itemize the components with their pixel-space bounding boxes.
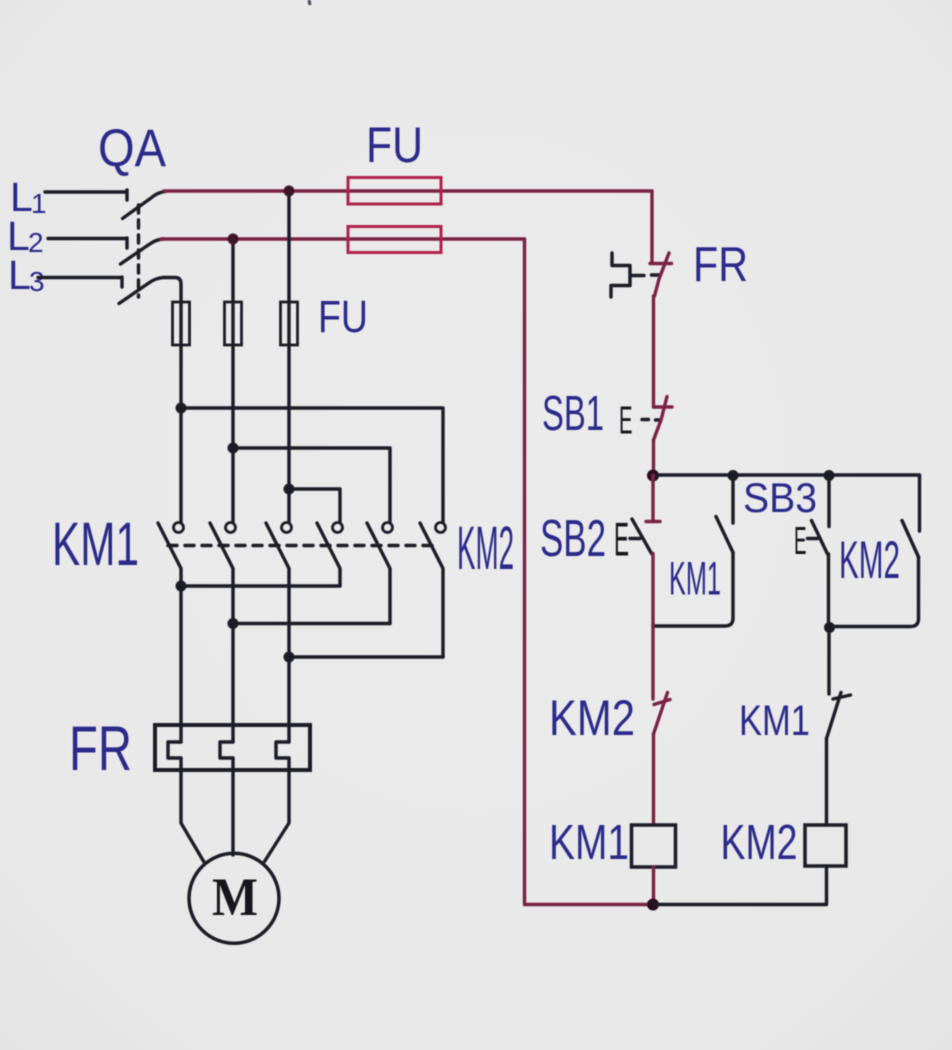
node L2 tap — [228, 234, 239, 245]
wire L1 lead-in — [45, 190, 127, 200]
svg-text:SB3: SB3 — [743, 474, 817, 521]
wire motor lead 2 — [231, 758, 234, 855]
wire SB1 to node A — [652, 440, 655, 476]
contact KM2 pole2 — [367, 523, 393, 624]
fuse FU control line 2 — [348, 227, 441, 253]
terminal L1 — [10, 174, 47, 220]
contact linkage dashed — [168, 544, 436, 547]
svg-text:E: E — [614, 513, 629, 566]
svg-text:KM1: KM1 — [549, 816, 629, 870]
wire phase2 to FR — [231, 624, 234, 743]
switch QA pole 1 blade — [123, 191, 167, 218]
wire L2 lead-in — [48, 238, 127, 248]
terminal L2 — [7, 213, 44, 259]
svg-text:KM2: KM2 — [839, 531, 900, 590]
wire motor lead 1 — [181, 758, 204, 862]
relay FR heater element 2 — [220, 742, 233, 758]
svg-text:FR: FR — [693, 238, 748, 292]
wire bus3 — [289, 655, 443, 658]
svg-text:M: M — [212, 867, 258, 927]
svg-text:E: E — [619, 400, 633, 443]
node phase1 feed — [176, 403, 187, 414]
svg-text:KM1: KM1 — [52, 510, 139, 578]
node C — [824, 470, 835, 481]
svg-text:KM1: KM1 — [669, 552, 721, 605]
wire L2 phase red run — [161, 237, 525, 240]
contact KM1 pole3 — [266, 523, 292, 658]
wire to KM1 coil — [652, 734, 655, 825]
contact KM1 interlock NC — [827, 628, 851, 739]
switch QA pole 2 blade — [121, 239, 164, 264]
contact KM2 pole1 — [317, 523, 343, 587]
wire SB2 down — [651, 554, 654, 627]
wire phase 3 drop — [287, 191, 290, 522]
wire feed phase3 to KM2 col4 — [289, 489, 340, 522]
svg-text:FU: FU — [318, 291, 368, 342]
button SB1 actuator E — [619, 400, 660, 443]
wire feed phase1 to KM2 col6 — [181, 408, 443, 522]
contact FR NC — [650, 253, 672, 296]
wire phase 2 drop — [231, 239, 234, 522]
terminal L3 — [8, 252, 45, 298]
node phase2 feed — [228, 443, 239, 454]
wire L3 lead-in — [38, 277, 122, 287]
svg-text:SB1: SB1 — [542, 387, 604, 441]
contact KM2 auxiliary — [830, 476, 920, 627]
motor M — [189, 853, 279, 943]
wire SB3 down — [827, 554, 830, 628]
node phase3 feed — [284, 484, 295, 495]
switch QA pole 3 blade — [119, 277, 164, 303]
wire phase3 to FR — [287, 657, 290, 742]
contact KM1 pole2 — [210, 523, 236, 624]
wire phase1 to FR — [179, 586, 182, 742]
svg-text:KM1: KM1 — [739, 697, 810, 745]
relay FR trip dashes — [632, 273, 661, 277]
relay FR trip actuator — [611, 253, 630, 297]
wire control rail left (L2) — [525, 239, 654, 905]
relay FR heater element 3 — [276, 742, 289, 758]
fuse FU control line 1 — [348, 178, 441, 205]
wire control top bus — [653, 473, 920, 476]
wire phase 1 drop — [164, 278, 181, 522]
wire bus1 — [181, 584, 340, 587]
node B — [728, 470, 739, 481]
contact KM2 interlock NC — [653, 626, 670, 734]
contact KM1 pole1 — [158, 523, 184, 587]
wire FR to SB1 — [652, 296, 655, 407]
contact KM1 auxiliary — [653, 476, 733, 627]
wire bus2 — [233, 622, 390, 625]
svg-text:L: L — [8, 252, 31, 298]
button SB2 NO contact — [632, 476, 660, 554]
svg-text:3: 3 — [29, 266, 45, 297]
wire control branch top (L1) — [650, 191, 653, 262]
wire motor lead 3 — [265, 758, 290, 862]
relay FR heater box — [155, 725, 310, 770]
svg-text:KM2: KM2 — [457, 514, 514, 582]
node E — [647, 899, 659, 911]
node A — [647, 470, 659, 482]
fuse FU motor 3 — [281, 302, 298, 345]
svg-text:FR: FR — [69, 714, 132, 784]
coil KM2 — [805, 825, 846, 866]
contact SB1 NC — [654, 397, 673, 441]
wire feed phase2 to KM2 col5 — [233, 448, 390, 522]
node bus3 — [284, 652, 295, 663]
button SB2 actuator E — [614, 513, 640, 566]
node L1 tap — [284, 186, 295, 197]
wire L1 phase red run — [164, 189, 652, 192]
switch QA linkage dashed — [137, 205, 140, 297]
contact KM2 pole3 — [420, 523, 446, 658]
wire bottom return black — [653, 866, 827, 905]
svg-text:E: E — [794, 520, 807, 563]
svg-text:FU: FU — [366, 117, 423, 173]
svg-text:SB2: SB2 — [540, 510, 606, 568]
node D — [824, 622, 835, 633]
coil KM1 — [632, 825, 676, 867]
relay FR heater element 1 — [168, 742, 181, 758]
node bus1 — [176, 581, 187, 592]
fuse FU motor 2 — [225, 302, 242, 345]
fuse FU motor 1 — [173, 302, 190, 345]
svg-text:KM2: KM2 — [549, 690, 635, 746]
wire to KM2 coil — [825, 739, 828, 826]
button SB3 NO contact — [812, 476, 830, 555]
wire KM1 coil to bottom — [652, 867, 655, 905]
node bus2 — [228, 618, 239, 629]
stray tick top edge — [309, 0, 310, 5]
button SB3 actuator E — [794, 520, 818, 563]
svg-text:KM2: KM2 — [721, 816, 798, 870]
svg-text:QA: QA — [98, 119, 167, 178]
